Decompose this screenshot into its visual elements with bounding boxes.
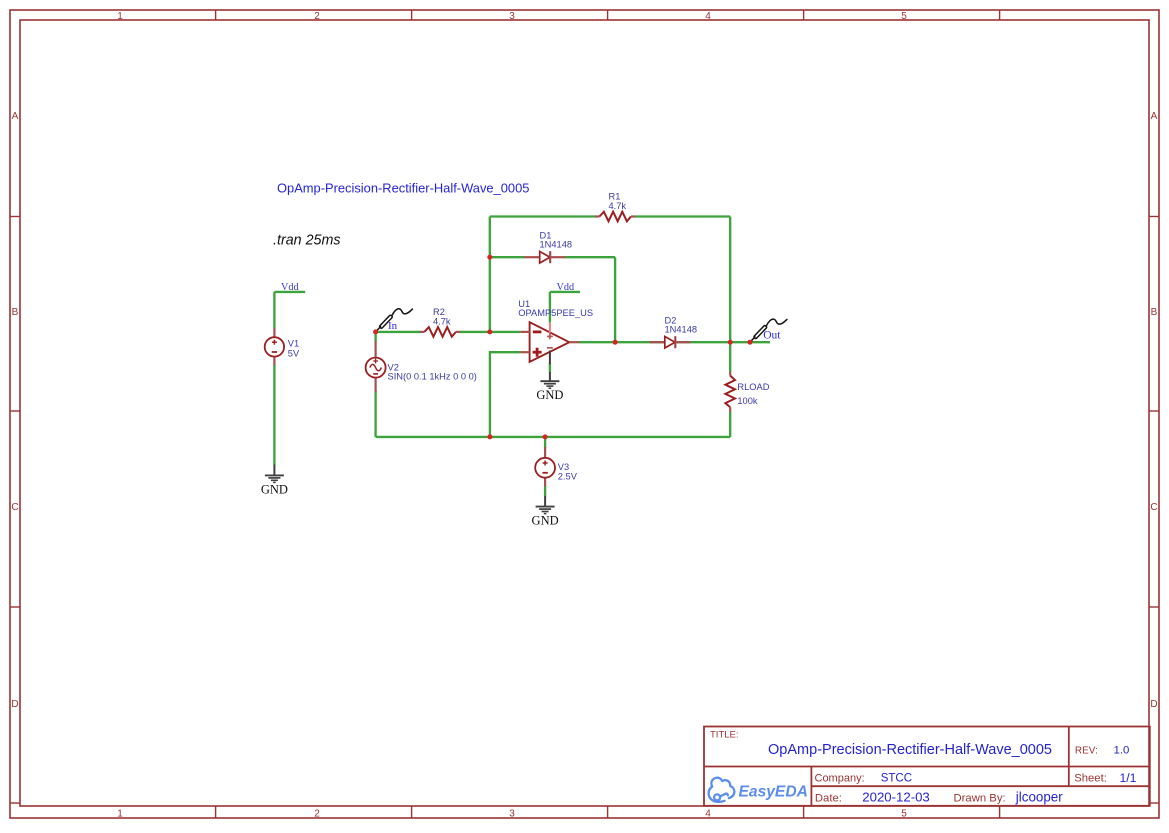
- svg-text:RLOAD: RLOAD: [737, 382, 769, 392]
- label D2 1N4148: [665, 315, 698, 334]
- svg-text:C: C: [1150, 502, 1157, 513]
- svg-text:5: 5: [901, 809, 907, 820]
- frame ruler numbers bottom: [117, 809, 907, 820]
- wire D1 vertical down to output wire: [614, 257, 616, 342]
- resistor RLOAD (vertical): [725, 372, 735, 412]
- op-amp U1: [520, 322, 579, 364]
- svg-text:Out: Out: [763, 330, 781, 342]
- label R1 4.7k: [609, 192, 627, 211]
- diode D2: [650, 336, 691, 348]
- svg-text:GND: GND: [536, 388, 563, 402]
- wire top feedback horizontal right of R1: [634, 215, 730, 217]
- wire feedback vertical (inverting node): [489, 217, 491, 332]
- svg-text:REV:: REV:: [1075, 745, 1098, 756]
- svg-text:1/1: 1/1: [1120, 771, 1137, 785]
- svg-text:4.7k: 4.7k: [609, 201, 627, 211]
- junction node output/R1/RLOAD: [728, 340, 733, 345]
- svg-text:1N4148: 1N4148: [665, 325, 698, 335]
- svg-text:OpAmp-Precision-Rectifier-Half: OpAmp-Precision-Rectifier-Half-Wave_0005: [768, 742, 1052, 758]
- frame ruler ticks right: [1149, 217, 1159, 804]
- svg-text:B: B: [1151, 307, 1158, 318]
- svg-text:Vdd: Vdd: [557, 282, 575, 293]
- svg-text:GND: GND: [261, 482, 288, 496]
- wire V1 bottom vertical: [273, 365, 275, 466]
- wire op-amp output horizontal: [579, 341, 770, 343]
- wire Vdd flag bar for V1: [274, 291, 305, 293]
- svg-text:3: 3: [509, 11, 515, 22]
- svg-text:GND: GND: [532, 514, 559, 528]
- junction node bottom rail / V3: [543, 434, 548, 439]
- wire D1 cathode horizontal: [565, 256, 615, 258]
- diode D1: [524, 251, 566, 263]
- label V2 SIN: [388, 362, 477, 381]
- wire R2 to op-amp inverting input: [459, 331, 520, 333]
- svg-text:5: 5: [901, 11, 907, 22]
- resistor R2: [420, 327, 460, 337]
- wire non-inverting input to left corner: [490, 352, 521, 437]
- junction node bottom rail / non-inverting: [487, 434, 492, 439]
- voltage source V2 (sine): [366, 341, 386, 392]
- label V1 5V: [288, 338, 300, 358]
- svg-text:4.7k: 4.7k: [433, 316, 451, 326]
- svg-text:SIN(0 0.1 1kHz 0 0 0): SIN(0 0.1 1kHz 0 0 0): [388, 372, 477, 382]
- junction node D1 branch on output: [613, 340, 618, 345]
- wire V2 bottom: [374, 391, 376, 437]
- wire V1 top vertical: [273, 292, 275, 328]
- voltage source V1: [265, 328, 284, 366]
- svg-text:1: 1: [117, 11, 123, 22]
- junction node Out probe: [748, 340, 753, 345]
- wire V3 bottom: [544, 486, 546, 498]
- svg-text:5V: 5V: [288, 348, 300, 358]
- voltage probe Out: [751, 319, 787, 341]
- svg-text:OPAMP5PEE_US: OPAMP5PEE_US: [518, 308, 593, 318]
- label R2 4.7k: [433, 307, 451, 326]
- svg-text:.tran 25ms: .tran 25ms: [273, 233, 341, 249]
- svg-text:C: C: [11, 502, 18, 513]
- wire V3 top: [544, 437, 546, 448]
- wire output node down to RLOAD: [729, 342, 731, 372]
- svg-text:D: D: [11, 699, 18, 710]
- ground GND (below V3): [532, 496, 559, 527]
- wire right vertical from R1 to output node: [729, 217, 731, 343]
- resistor R1: [595, 212, 635, 222]
- svg-text:100k: 100k: [737, 396, 758, 406]
- svg-text:EasyEDA: EasyEDA: [739, 783, 808, 800]
- wire op-amp Vdd flag bar: [550, 291, 580, 293]
- svg-text:1: 1: [117, 809, 123, 820]
- svg-text:Drawn By:: Drawn By:: [954, 793, 1006, 805]
- svg-text:D: D: [1150, 699, 1157, 710]
- svg-text:2020-12-03: 2020-12-03: [862, 790, 929, 805]
- label V3 2.5V: [558, 462, 578, 481]
- svg-text:A: A: [12, 111, 19, 122]
- wire bottom rail: [376, 436, 731, 438]
- svg-text:TITLE:: TITLE:: [710, 730, 739, 741]
- svg-text:jlcooper: jlcooper: [1015, 789, 1063, 804]
- svg-text:3: 3: [509, 809, 515, 820]
- junction node at In: [373, 329, 378, 334]
- svg-text:2.5V: 2.5V: [558, 471, 578, 481]
- wire op-amp Vdd vertical: [549, 292, 551, 323]
- svg-text:1.0: 1.0: [1114, 745, 1130, 757]
- svg-text:1N4148: 1N4148: [540, 240, 573, 250]
- svg-text:Sheet:: Sheet:: [1074, 773, 1107, 785]
- EasyEDA logo cloud icon: [709, 778, 735, 802]
- label U1 OPAMP5PEE_US: [518, 299, 593, 318]
- wire V2 top: [374, 332, 376, 342]
- voltage source V3: [535, 447, 555, 487]
- frame ruler letters right: [1150, 111, 1157, 710]
- svg-text:In: In: [388, 320, 398, 332]
- frame ruler ticks bottom: [216, 806, 1000, 818]
- svg-text:OpAmp-Precision-Rectifier-Half: OpAmp-Precision-Rectifier-Half-Wave_0005: [277, 181, 529, 196]
- wire top feedback horizontal left of R1: [490, 215, 596, 217]
- frame ruler ticks left: [10, 217, 20, 804]
- title block outline: [704, 727, 1150, 806]
- svg-text:Vdd: Vdd: [281, 282, 299, 293]
- frame ruler letters left: [11, 111, 18, 710]
- label RLOAD 100k: [737, 382, 769, 406]
- wire RLOAD bottom to bottom rail: [729, 411, 731, 437]
- svg-text:Date:: Date:: [815, 793, 842, 805]
- wire In node to R2: [376, 331, 421, 333]
- wire op-amp ground short segment: [549, 364, 551, 373]
- svg-text:2: 2: [314, 11, 320, 22]
- junction node inverting input: [487, 329, 492, 334]
- voltage probe In: [376, 309, 412, 331]
- wire D1 anode horizontal: [490, 256, 525, 258]
- label D1 1N4148: [540, 230, 573, 249]
- svg-text:B: B: [12, 307, 19, 318]
- ground GND (below V1): [261, 465, 288, 497]
- svg-text:4: 4: [705, 809, 711, 820]
- svg-text:4: 4: [705, 11, 711, 22]
- frame ruler numbers top: [117, 11, 907, 22]
- svg-text:STCC: STCC: [881, 772, 912, 784]
- svg-text:2: 2: [314, 809, 320, 820]
- svg-text:Company:: Company:: [815, 772, 865, 784]
- svg-text:A: A: [1151, 111, 1158, 122]
- ground GND (op-amp): [536, 372, 563, 402]
- frame ruler ticks top: [216, 10, 1000, 20]
- junction node D1 anode: [487, 255, 492, 260]
- svg-text:V1: V1: [288, 338, 299, 348]
